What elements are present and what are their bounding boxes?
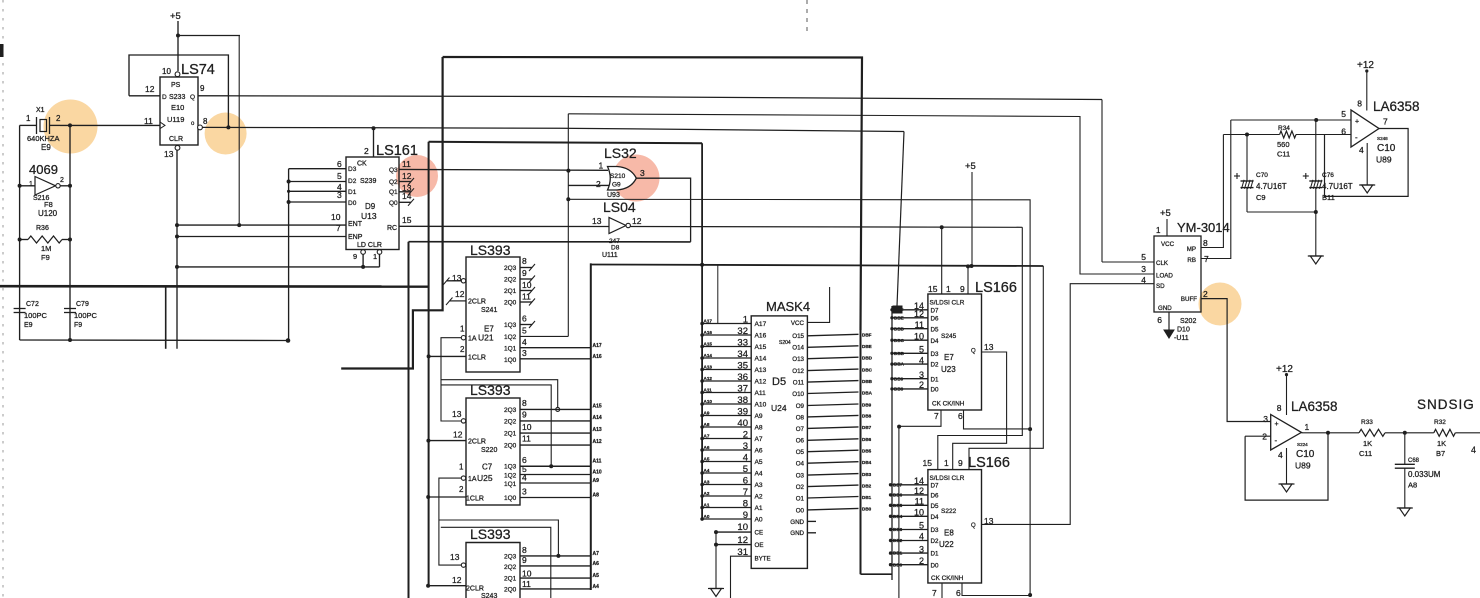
svg-text:2CLR: 2CLR <box>466 586 484 593</box>
svg-text:YM-3014: YM-3014 <box>1177 220 1230 235</box>
svg-text:A5: A5 <box>704 456 710 461</box>
svg-text:O3: O3 <box>796 473 805 480</box>
svg-text:2: 2 <box>459 485 464 494</box>
svg-text:9: 9 <box>522 268 527 278</box>
wire clock net down to LS166-2 <box>898 427 900 598</box>
svg-text:F9: F9 <box>41 253 50 262</box>
svg-text:U111: U111 <box>602 252 618 259</box>
svg-text:CK CK/INH: CK CK/INH <box>932 401 965 408</box>
highlight circle at LS161 Q3 outputs <box>396 155 438 197</box>
svg-text:2Q0: 2Q0 <box>504 587 517 594</box>
wire CLR LS166-1 from +5 rail <box>966 264 970 294</box>
wire LS393-2 2Q1 to bus A13 <box>520 427 602 433</box>
stub LS393-1 2Q1 <box>520 287 535 294</box>
svg-text:LD CLR: LD CLR <box>357 242 382 249</box>
svg-text:D6: D6 <box>931 315 939 322</box>
wire LS393-1 1CLR to CLR rail <box>429 355 466 357</box>
wire LS393-3 2Q3 to bus A7 <box>520 551 599 557</box>
wire LS166-1 CK pin7 <box>897 410 941 429</box>
svg-text:13: 13 <box>984 342 994 352</box>
op-amp LA6358 first C10 U89 <box>1341 99 1419 165</box>
svg-text:DBD: DBD <box>862 356 873 361</box>
svg-text:X1: X1 <box>36 107 45 114</box>
svg-text:A14: A14 <box>755 356 767 363</box>
svg-text:O0: O0 <box>796 507 805 514</box>
svg-text:+: + <box>1275 421 1279 428</box>
svg-text:S/LDSI CLR: S/LDSI CLR <box>930 475 965 482</box>
svg-text:A11: A11 <box>704 387 713 392</box>
svg-text:BUFF: BUFF <box>1181 296 1197 303</box>
svg-text:S/LDSI CLR: S/LDSI CLR <box>930 300 965 307</box>
svg-text:U24: U24 <box>771 403 787 413</box>
svg-text:2Q3: 2Q3 <box>504 407 517 414</box>
svg-text:D2: D2 <box>931 362 939 369</box>
svg-text:S241: S241 <box>481 307 497 314</box>
svg-text:A16: A16 <box>755 333 767 340</box>
svg-text:CK: CK <box>357 161 367 168</box>
svg-text:C10: C10 <box>1377 143 1396 154</box>
wire address bus spine to MASK4 <box>591 263 1044 268</box>
svg-text:A0: A0 <box>755 517 763 524</box>
svg-text:ENT: ENT <box>348 221 363 228</box>
stub LS393-1 2Q3 <box>520 264 535 271</box>
stub LS393-1 2Q2 <box>520 276 535 283</box>
svg-text:15: 15 <box>928 284 938 294</box>
svg-text:4: 4 <box>1278 450 1283 460</box>
svg-text:A4: A4 <box>593 584 600 590</box>
svg-text:LS393: LS393 <box>470 382 511 398</box>
svg-text:13: 13 <box>452 409 462 419</box>
wire data bus vertical x860 lower <box>861 330 893 574</box>
wire LS166-2 CK/INH to clock net <box>962 583 1032 597</box>
svg-text:3: 3 <box>522 348 527 358</box>
wire LS166-1 CK/INH pin6 <box>964 410 1031 429</box>
svg-text:1: 1 <box>599 161 604 171</box>
svg-text:GND: GND <box>1158 305 1172 312</box>
svg-text:DB8: DB8 <box>894 387 904 392</box>
wire LS393-1 1Q0 to bus A16 <box>520 354 602 360</box>
svg-text:1Q2: 1Q2 <box>504 473 517 480</box>
wires LS166-2 data inputs from bus <box>889 482 928 567</box>
wire LS166-1 Q to LS166-2 SI <box>953 352 1007 470</box>
svg-text:5: 5 <box>1341 109 1346 119</box>
svg-text:DB3: DB3 <box>893 527 903 532</box>
svg-text:1Q0: 1Q0 <box>504 357 517 364</box>
svg-text:LS393: LS393 <box>470 526 511 542</box>
svg-text:2CLR: 2CLR <box>468 439 486 446</box>
wire LS74 Qbar pin8 line <box>202 127 904 131</box>
wire LS04 net to LS166-2 S/LD <box>938 227 1023 469</box>
svg-text:13: 13 <box>164 149 174 159</box>
svg-text:A9: A9 <box>704 410 710 415</box>
label 640KHZA E9 <box>27 134 60 152</box>
svg-text:4.7U16T: 4.7U16T <box>1256 182 1287 191</box>
svg-text:10: 10 <box>522 422 532 432</box>
svg-text:+5: +5 <box>965 161 976 172</box>
svg-text:D4: D4 <box>931 338 939 345</box>
svg-text:13: 13 <box>592 216 602 226</box>
wire LS32 output loop to x408 net <box>636 178 690 242</box>
svg-text:Q2: Q2 <box>389 179 398 186</box>
svg-text:DBF: DBF <box>862 333 872 338</box>
svg-text:A9: A9 <box>755 413 763 420</box>
label SNDSIG <box>1417 397 1475 412</box>
wire opamp2 output <box>1301 432 1359 434</box>
svg-text:4: 4 <box>1141 275 1146 285</box>
highlight circle at crystal pin 2 <box>44 100 98 154</box>
dac YM-3014 D10 U11 <box>1141 220 1229 342</box>
svg-text:BYTE: BYTE <box>755 555 771 562</box>
wire LS161 LD CLR to LS74 CLR net <box>177 254 380 269</box>
svg-text:5: 5 <box>1141 252 1146 262</box>
svg-text:1Q3: 1Q3 <box>504 322 517 329</box>
svg-text:LA6358: LA6358 <box>1291 399 1338 414</box>
stub LS393-1 1Q3 <box>520 321 535 328</box>
svg-text:DB7: DB7 <box>862 425 872 430</box>
svg-text:U22: U22 <box>939 540 954 549</box>
svg-text:1Q2: 1Q2 <box>504 334 517 341</box>
wire cascade branch to 2Q3 of LS393-3 <box>439 520 561 558</box>
svg-text:DBA: DBA <box>894 362 905 367</box>
capacitor C72 100PC E9 <box>14 301 48 329</box>
wire YM-3014 RB to opamp input <box>1201 120 1231 259</box>
svg-text:A8: A8 <box>1408 481 1417 490</box>
svg-text:C76: C76 <box>1322 172 1334 179</box>
op-amp LA6358 second C10 U89 <box>1262 399 1337 471</box>
power +5 above LS74 <box>170 11 181 71</box>
svg-text:2Q3: 2Q3 <box>504 554 517 561</box>
wire LS32 pin2 from LS393 tap <box>568 184 609 186</box>
svg-text:D3: D3 <box>348 166 357 173</box>
capacitor C70 4.7U16T C9 <box>1234 135 1287 213</box>
wire LS161 D3 D2 D1 D0 inputs <box>287 169 346 204</box>
inverter LS04 D8 U111 <box>592 199 642 259</box>
svg-text:C11: C11 <box>1359 449 1372 458</box>
svg-text:4.7U16T: 4.7U16T <box>1322 182 1353 191</box>
svg-text:C11: C11 <box>1277 150 1290 159</box>
svg-text:D6: D6 <box>931 493 939 500</box>
svg-text:+12: +12 <box>1357 60 1374 71</box>
svg-text:A2: A2 <box>704 491 710 496</box>
svg-text:2: 2 <box>60 177 64 184</box>
svg-text:11: 11 <box>522 579 531 589</box>
wire LS393-2 2CLR to CLR rail <box>428 440 466 442</box>
wire MASK4 VCC riser <box>807 287 829 322</box>
svg-text:3: 3 <box>522 487 527 497</box>
svg-text:8: 8 <box>203 117 208 126</box>
wires MASK4 address pins to bus <box>700 318 751 521</box>
wire serial data bus vertical x892 <box>891 306 893 580</box>
svg-text:O4: O4 <box>796 461 805 468</box>
wire Q3 net to YM-3014 LOAD <box>568 114 1154 274</box>
svg-text:6: 6 <box>337 159 342 169</box>
svg-text:O10: O10 <box>792 391 804 398</box>
wire LS74 pin8 drop to data label <box>893 132 905 314</box>
svg-text:D1: D1 <box>931 376 939 383</box>
svg-text:DB5: DB5 <box>862 449 872 454</box>
wire LS74 D feedback loop <box>129 55 230 129</box>
svg-text:A10: A10 <box>593 470 602 476</box>
svg-text:2: 2 <box>364 146 369 156</box>
svg-text:R34: R34 <box>1278 125 1290 132</box>
svg-text:OE: OE <box>755 542 764 549</box>
svg-text:A12: A12 <box>593 439 602 445</box>
or-gate LS32 G9 U93 <box>596 145 645 199</box>
svg-text:Q: Q <box>971 523 976 529</box>
svg-text:DBB: DBB <box>894 351 905 356</box>
wire LS393-3 2Q0 to bus A4 <box>520 584 599 590</box>
svg-text:DBC: DBC <box>862 367 873 372</box>
svg-text:ENP: ENP <box>348 234 363 241</box>
svg-text:A4: A4 <box>755 471 763 478</box>
svg-text:DB0: DB0 <box>862 507 872 512</box>
svg-text:A9: A9 <box>593 478 600 484</box>
pin numbers LS166-1 left <box>914 301 924 390</box>
svg-text:S233: S233 <box>169 94 185 101</box>
svg-text:DBD: DBD <box>894 326 905 331</box>
svg-text:2: 2 <box>460 345 465 354</box>
svg-text:C72: C72 <box>26 301 39 308</box>
svg-text:A7: A7 <box>593 551 600 557</box>
svg-text:A6: A6 <box>593 561 600 567</box>
svg-text:D5: D5 <box>931 326 939 333</box>
svg-text:2Q1: 2Q1 <box>504 288 517 295</box>
svg-text:DBE: DBE <box>894 315 904 320</box>
svg-text:LS74: LS74 <box>181 62 215 78</box>
wire MASK4 BYTE off-page <box>731 556 752 598</box>
svg-text:O9: O9 <box>796 403 805 410</box>
svg-text:A13: A13 <box>593 427 602 433</box>
svg-text:11: 11 <box>144 116 153 126</box>
svg-text:10: 10 <box>522 569 532 579</box>
svg-text:RB: RB <box>1187 257 1196 264</box>
svg-text:LS32: LS32 <box>604 145 637 161</box>
svg-text:PS: PS <box>171 82 181 89</box>
svg-text:2Q2: 2Q2 <box>504 419 517 426</box>
svg-text:E8: E8 <box>944 529 954 538</box>
wire LS161 CK from LS74 pin8 <box>372 126 376 157</box>
svg-text:11: 11 <box>402 159 411 169</box>
svg-text:9: 9 <box>200 84 205 93</box>
svg-text:3: 3 <box>640 168 645 178</box>
svg-text:U119: U119 <box>167 115 184 124</box>
left edge scan mark <box>0 44 4 57</box>
svg-text:S243: S243 <box>481 593 497 598</box>
svg-text:-U11: -U11 <box>1174 335 1189 342</box>
svg-text:-: - <box>1275 436 1278 445</box>
svg-text:9: 9 <box>353 252 357 261</box>
svg-text:DB7: DB7 <box>893 482 903 487</box>
svg-text:A15: A15 <box>593 404 602 410</box>
svg-text:A8: A8 <box>755 425 763 432</box>
wire LS161 ENP <box>177 236 346 238</box>
svg-text:10: 10 <box>737 522 748 533</box>
svg-text:DB3: DB3 <box>862 472 872 477</box>
svg-text:C7: C7 <box>482 463 493 472</box>
svg-text:1Q1: 1Q1 <box>504 481 517 488</box>
svg-text:O2: O2 <box>796 484 805 491</box>
shift register LS166 first S245 E7 U23 <box>928 280 1017 421</box>
svg-text:C79: C79 <box>76 301 89 308</box>
power +12 above LA6358 second <box>1276 364 1293 415</box>
svg-text:CE: CE <box>755 530 764 537</box>
svg-text:C9: C9 <box>1256 193 1266 202</box>
svg-text:1: 1 <box>1156 226 1161 235</box>
svg-text:A17: A17 <box>755 321 767 328</box>
svg-text:2Q0: 2Q0 <box>504 300 517 307</box>
svg-text:O12: O12 <box>792 368 804 375</box>
svg-text:U93: U93 <box>607 192 620 199</box>
svg-text:A6: A6 <box>704 445 710 450</box>
svg-text:D0: D0 <box>931 387 939 394</box>
svg-text:S224: S224 <box>1297 442 1308 447</box>
svg-text:Q1: Q1 <box>389 189 398 196</box>
svg-text:D7: D7 <box>931 307 939 314</box>
svg-text:U13: U13 <box>361 211 377 221</box>
wire +5 corner to ENT rail <box>178 36 240 226</box>
svg-text:CK CK/INH: CK CK/INH <box>931 575 964 582</box>
svg-text:6: 6 <box>956 588 961 598</box>
counter LS161 D9 U13 <box>331 143 418 261</box>
svg-text:DBE: DBE <box>862 344 872 349</box>
svg-text:D1: D1 <box>931 551 939 558</box>
svg-text:2Q1: 2Q1 <box>504 576 517 583</box>
svg-text:DB2: DB2 <box>893 538 903 543</box>
svg-text:LA6358: LA6358 <box>1373 99 1420 114</box>
ground YM-3014 pin6 <box>1164 312 1174 338</box>
svg-text:S248: S248 <box>1377 136 1388 141</box>
svg-text:10: 10 <box>331 212 341 222</box>
svg-text:2Q2: 2Q2 <box>504 564 517 571</box>
svg-text:A14: A14 <box>704 353 713 358</box>
highlight circle at YM-3014 BUFF pin <box>1199 283 1242 326</box>
wire LS393-2 2Q2 to bus A14 <box>520 415 602 421</box>
svg-text:A11: A11 <box>593 459 602 465</box>
svg-text:B11: B11 <box>1322 193 1335 202</box>
wire cascade branch lower <box>441 527 551 598</box>
svg-text:LS166: LS166 <box>968 455 1010 471</box>
svg-text:A17: A17 <box>593 343 602 349</box>
wire LS161 Q3 to LS32 pin1 <box>399 169 608 173</box>
svg-text:DB9: DB9 <box>894 376 904 381</box>
wire cascade branch to 1Q3 of LS393-2 <box>441 385 553 468</box>
svg-text:1: 1 <box>29 181 33 188</box>
svg-text:8: 8 <box>522 398 527 408</box>
svg-text:4069: 4069 <box>29 162 58 177</box>
svg-text:1: 1 <box>460 325 465 334</box>
svg-text:7: 7 <box>934 411 939 421</box>
rom MASK4 D5 U24 <box>751 299 810 568</box>
svg-text:A5: A5 <box>755 459 763 466</box>
svg-text:2Q0: 2Q0 <box>504 443 517 450</box>
svg-text:F8: F8 <box>44 200 53 209</box>
svg-text:A6: A6 <box>755 448 763 455</box>
svg-text:E10: E10 <box>171 103 184 112</box>
svg-text:A17: A17 <box>704 318 713 323</box>
svg-text:1: 1 <box>946 284 951 294</box>
svg-text:O1: O1 <box>796 495 805 502</box>
svg-text:MP: MP <box>1187 246 1196 253</box>
wire LS161 RC to LS04 input <box>399 225 609 227</box>
svg-text:A7: A7 <box>704 433 710 438</box>
svg-text:+: + <box>1355 119 1359 126</box>
svg-text:1: 1 <box>26 114 31 123</box>
svg-text:Q3: Q3 <box>389 167 398 174</box>
wire LS393-3 2Q1 to bus A5 <box>520 573 599 579</box>
resistor R32 1K B7 <box>1434 419 1456 458</box>
wire capacitor bottom rail to ground <box>1247 120 1318 256</box>
svg-text:O8: O8 <box>796 414 805 421</box>
svg-text:6: 6 <box>958 411 963 421</box>
svg-text:A14: A14 <box>593 415 602 421</box>
svg-text:D: D <box>162 94 167 101</box>
svg-text:S204: S204 <box>779 340 791 346</box>
wire LS74 Q pin9 long line to YM-3014 CLK <box>198 96 1102 100</box>
svg-text:A1: A1 <box>755 505 763 512</box>
svg-text:5: 5 <box>522 326 527 336</box>
svg-text:A13: A13 <box>704 364 713 369</box>
svg-text:D10: D10 <box>1177 327 1190 334</box>
svg-text:A11: A11 <box>755 390 767 397</box>
svg-text:+12: +12 <box>1276 364 1293 375</box>
svg-text:S210: S210 <box>610 173 626 180</box>
svg-text:1: 1 <box>944 458 949 468</box>
svg-text:R36: R36 <box>36 225 49 232</box>
wire opamp2 feedback loop <box>1245 431 1330 500</box>
svg-text:O5: O5 <box>796 449 805 456</box>
svg-text:2Q2: 2Q2 <box>504 277 517 284</box>
svg-text:S202: S202 <box>1180 318 1196 325</box>
wire LS393-1 1Q1 to bus A17 <box>520 343 602 349</box>
wire cascade branch to 2Q3 of LS393-2 <box>441 380 560 412</box>
wire y199 net to LS166 clock inhibit <box>568 199 1032 595</box>
wire LS393-1 1Q2 tap up to LS32 pin2 <box>520 335 568 337</box>
svg-text:4: 4 <box>522 337 527 347</box>
wire thick top rail to MASK4 data bus <box>443 57 862 330</box>
svg-text:D9: D9 <box>365 202 376 211</box>
wires MASK4 outputs to data bus <box>807 333 872 512</box>
svg-text:2: 2 <box>596 179 601 189</box>
wire opamp1 noninverting input <box>1231 118 1351 122</box>
wire opamp1 inverting input with R34 <box>1223 133 1351 137</box>
pin numbers LS166-2 left <box>914 476 924 566</box>
wire LS393-1 1A cascade elbow <box>441 338 464 421</box>
svg-text:1Q1: 1Q1 <box>504 346 517 353</box>
svg-text:15: 15 <box>402 215 412 225</box>
svg-text:12: 12 <box>402 171 412 181</box>
svg-text:SNDSIG: SNDSIG <box>1417 397 1475 412</box>
wire LS74 CLR vertical <box>175 150 179 349</box>
svg-text:12: 12 <box>452 575 462 585</box>
wire LS161 ENT <box>177 223 346 227</box>
svg-text:1CLR: 1CLR <box>466 496 484 503</box>
power +5 above YM-3014 <box>1160 208 1171 236</box>
svg-text:A3: A3 <box>755 482 763 489</box>
resistor R33 1K C11 <box>1359 419 1385 458</box>
wire opamp2 pin4 ground <box>1279 448 1295 492</box>
svg-text:6: 6 <box>1157 315 1162 325</box>
ground below C68 <box>1397 508 1413 516</box>
svg-text:B7: B7 <box>1436 449 1445 458</box>
wire thick elbow x413 y368 <box>341 57 442 369</box>
svg-text:9: 9 <box>960 284 965 294</box>
highlight circle at LS74 pin 8 <box>205 113 247 155</box>
svg-text:A12: A12 <box>755 379 767 386</box>
wire LS393-2 1Q2 to bus A10 <box>520 470 602 476</box>
svg-text:0.033UM: 0.033UM <box>1408 470 1441 479</box>
wires LS166-1 data inputs from bus <box>890 307 928 391</box>
wire LS393-3 2Q2 to bus A6 <box>520 561 599 567</box>
